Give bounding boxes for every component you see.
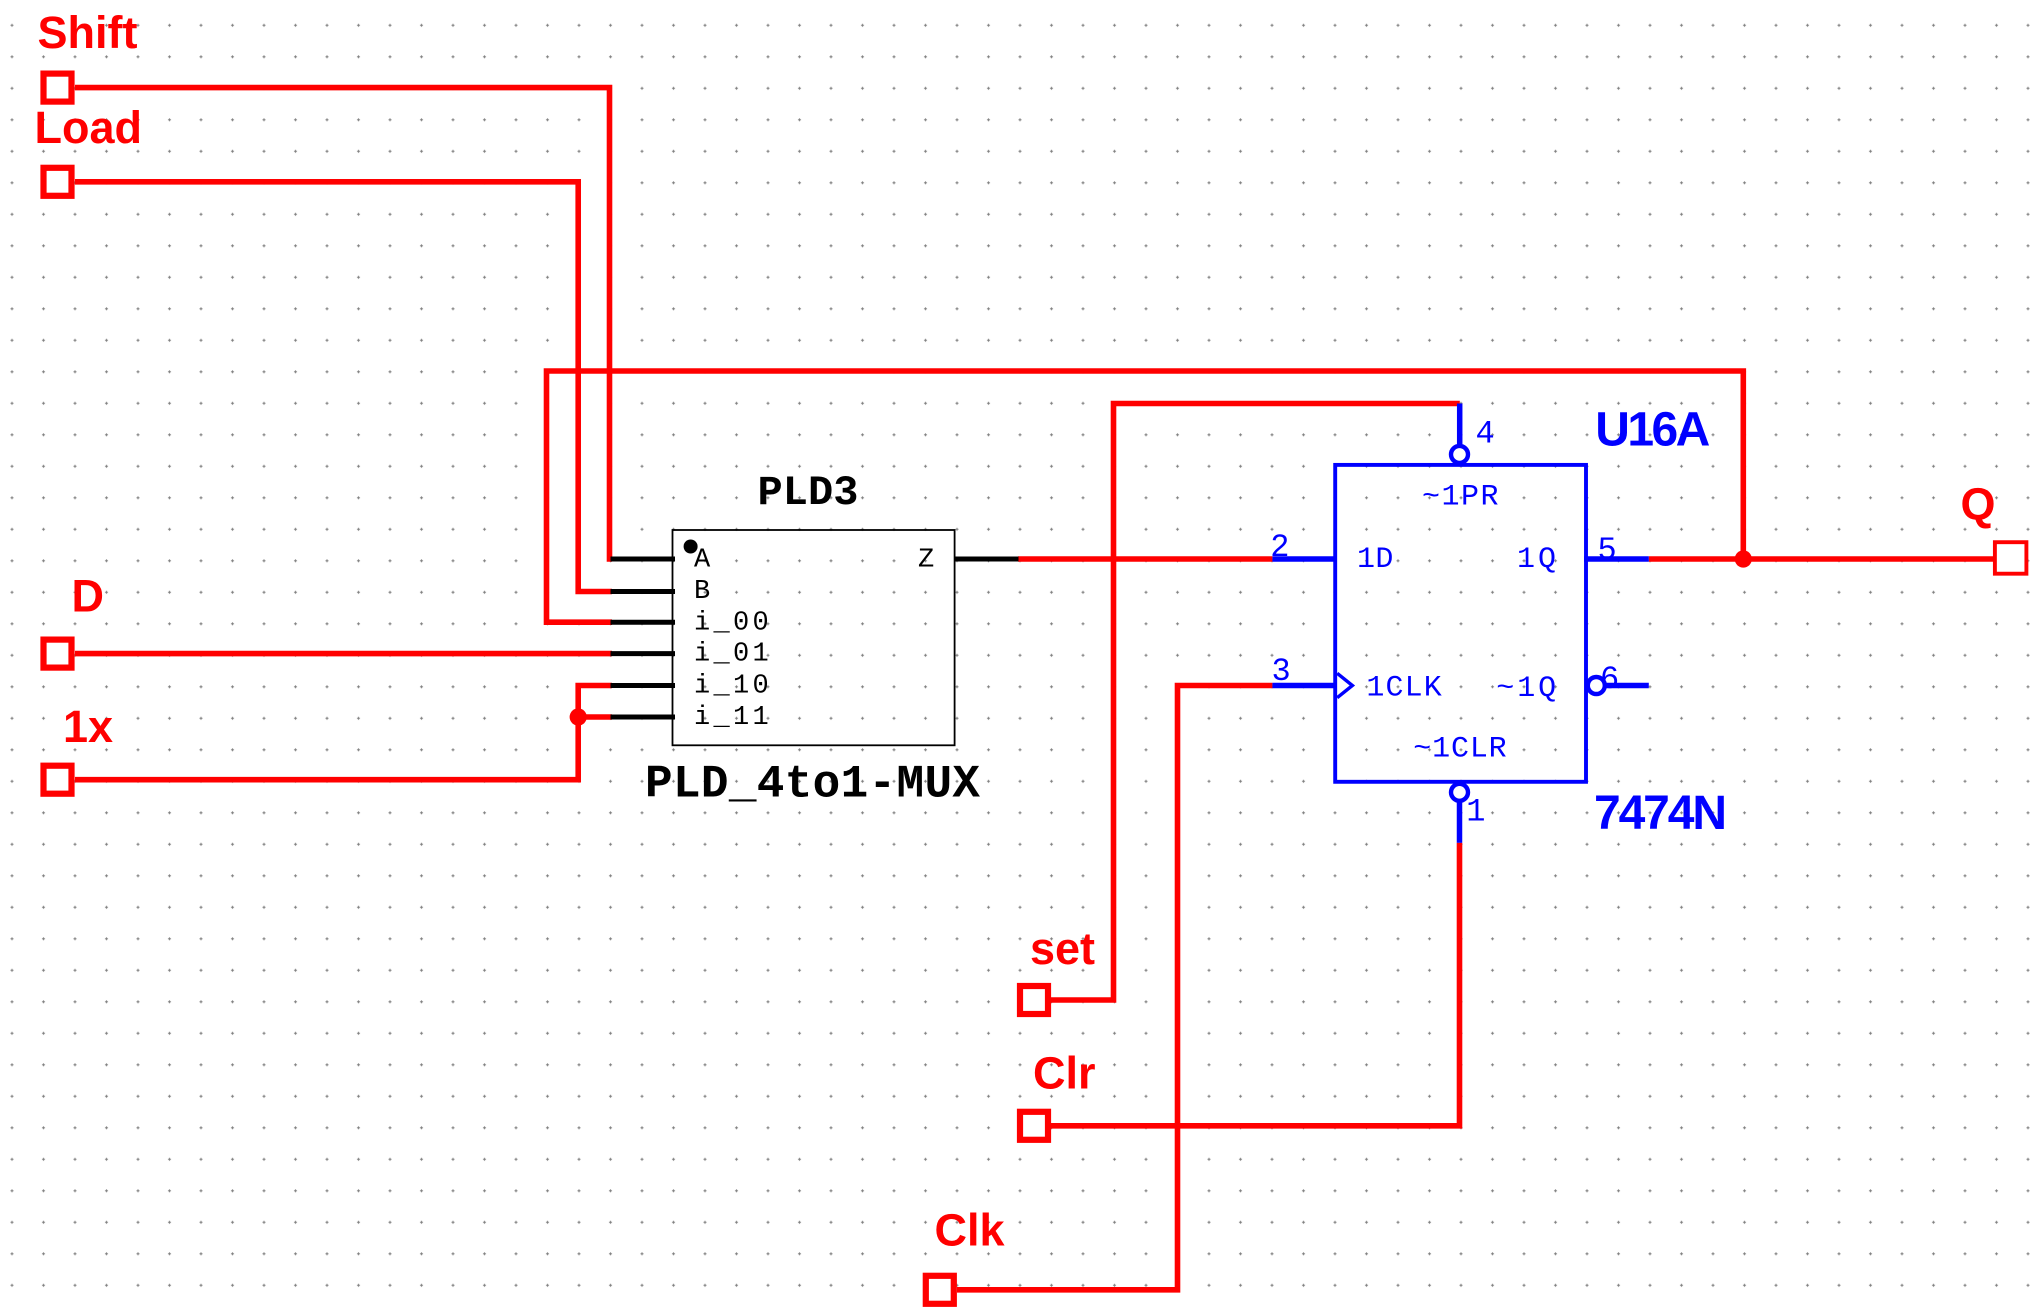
U16A pin 4 stub — [1457, 404, 1463, 447]
svg-text:D: D — [72, 571, 105, 622]
svg-text:5: 5 — [1598, 532, 1617, 569]
U16A body — [1335, 465, 1586, 782]
U16A pin 1 stub — [1457, 802, 1463, 843]
svg-text:PLD3: PLD3 — [758, 469, 859, 517]
terminal Load — [44, 168, 72, 196]
svg-text:U16A: U16A — [1595, 404, 1710, 457]
svg-text:6: 6 — [1600, 661, 1619, 698]
svg-text:Z: Z — [918, 545, 938, 575]
terminal Q — [1995, 542, 2027, 574]
U16A pin 4 bubble — [1451, 446, 1468, 463]
U16A clock wedge — [1337, 673, 1352, 697]
svg-text:i_01: i_01 — [694, 640, 772, 670]
svg-text:Load: Load — [35, 102, 143, 153]
wire Clr to U16A ~1CLR — [1051, 843, 1460, 1126]
wire PLD Z to U16A 1D — [1018, 556, 1272, 562]
U16A pin 6 stub — [1606, 683, 1649, 689]
svg-text:1: 1 — [1466, 794, 1485, 831]
U16A pin 3 stub — [1272, 683, 1337, 689]
U16A pin 2 stub — [1272, 556, 1337, 562]
wire Clk to U16A 1CLK — [957, 686, 1272, 1290]
wire Q feedback to PLD pin i_00 — [547, 371, 1744, 622]
terminal set — [1020, 986, 1048, 1014]
svg-text:i_11: i_11 — [694, 703, 772, 733]
wire 1Q to terminal Q — [1649, 556, 1993, 562]
terminal Shift — [44, 74, 72, 102]
svg-text:PLD_4to1-MUX: PLD_4to1-MUX — [645, 759, 980, 811]
svg-text:B: B — [694, 577, 714, 607]
wire Shift to PLD pin A — [75, 88, 612, 559]
svg-text:1D: 1D — [1357, 543, 1393, 577]
PLD3 pin i_01 stub — [611, 651, 676, 656]
svg-text:1x: 1x — [63, 701, 113, 752]
PLD3 pin i_10 stub — [611, 683, 676, 688]
wire set to U16A ~1PR — [1051, 404, 1460, 1001]
svg-text:3: 3 — [1272, 653, 1291, 690]
wire 1x to PLD pins i_10 i_11 — [75, 686, 612, 780]
svg-text:Q: Q — [1961, 479, 1996, 530]
svg-text:~1Q: ~1Q — [1496, 672, 1556, 706]
svg-text:~1CLR: ~1CLR — [1413, 733, 1507, 767]
terminal Clk — [926, 1276, 954, 1304]
svg-text:i_00: i_00 — [694, 608, 772, 638]
svg-text:~1PR: ~1PR — [1422, 481, 1499, 515]
svg-text:Clk: Clk — [935, 1205, 1006, 1256]
svg-text:set: set — [1030, 923, 1095, 974]
junction Q node — [1735, 550, 1752, 567]
svg-text:Clr: Clr — [1033, 1048, 1096, 1099]
wire Load to PLD pin B — [75, 182, 612, 592]
U16A pin 5 stub — [1584, 556, 1649, 562]
PLD3 pin Z stub — [954, 557, 1019, 562]
svg-text:4: 4 — [1476, 416, 1495, 453]
PLD3 body — [673, 530, 955, 745]
svg-text:Shift: Shift — [38, 7, 138, 58]
PLD3 pin B stub — [611, 589, 676, 594]
PLD3 pin i_00 stub — [611, 620, 676, 625]
PLD3 pin i_11 stub — [611, 715, 676, 720]
svg-text:A: A — [694, 545, 714, 575]
wire D to PLD pin i_01 — [75, 651, 612, 657]
svg-text:2: 2 — [1270, 529, 1289, 566]
terminal Clr — [1020, 1112, 1048, 1140]
terminal D — [44, 640, 72, 668]
PLD3 pin-1 dot — [684, 540, 698, 554]
PLD3 pin A stub — [611, 557, 676, 562]
junction 1x node — [570, 708, 587, 725]
U16A pin 1 bubble — [1451, 784, 1468, 801]
terminal 1x — [44, 766, 72, 794]
svg-text:7474N: 7474N — [1594, 787, 1727, 840]
svg-text:i_10: i_10 — [694, 671, 772, 701]
svg-text:1CLK: 1CLK — [1366, 672, 1441, 706]
U16A pin 6 bubble — [1588, 677, 1605, 694]
